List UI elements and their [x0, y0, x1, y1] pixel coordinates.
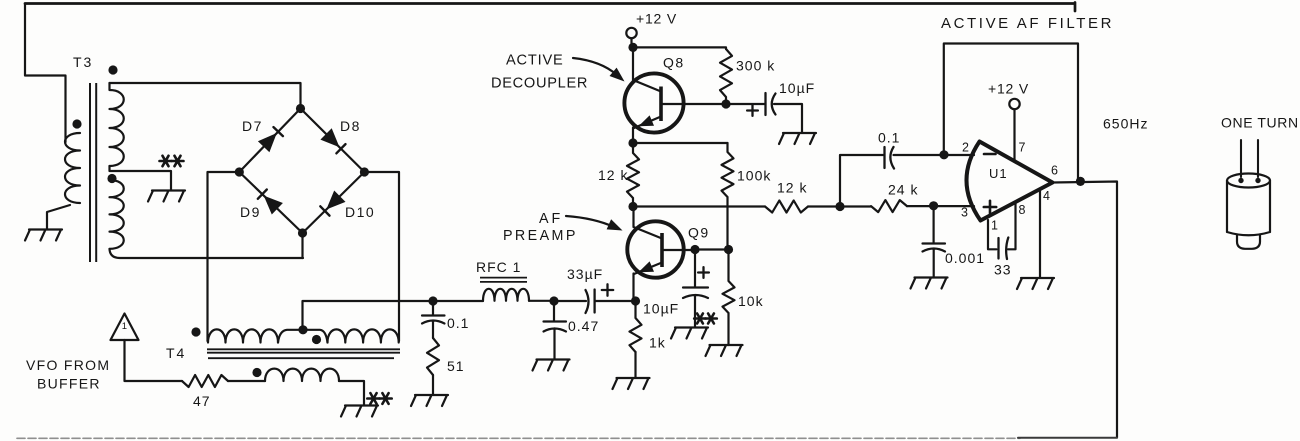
wire Q8 base to 10uF — [726, 103, 766, 105]
resistor 12k horizontal label — [777, 180, 807, 196]
capacitor 0.47 label — [568, 318, 599, 334]
650Hz label — [1103, 116, 1148, 132]
transformer T3 secondary lower half — [110, 180, 124, 249]
node bridge top — [296, 104, 305, 113]
svg-text:0.1: 0.1 — [878, 130, 900, 146]
wire bridge left node to T4 — [208, 172, 240, 341]
resistor 24k — [840, 200, 907, 212]
inductor RFC 1 label — [476, 259, 521, 275]
wire bottom return line — [17, 437, 1117, 440]
svg-text:3: 3 — [961, 206, 968, 220]
node T4 secondary left phase dot — [191, 327, 200, 336]
svg-text:D7: D7 — [242, 118, 263, 134]
inductor RFC 1 core — [480, 278, 527, 282]
svg-text:6: 6 — [1051, 164, 1058, 178]
node bridge right — [360, 167, 369, 176]
node Q8 emitter junction — [628, 138, 637, 147]
capacitor 33 label — [994, 262, 1012, 278]
svg-text:10µF: 10µF — [643, 301, 679, 317]
wire 0.1 to op-amp pin 2 — [894, 154, 975, 156]
ground T3 center tap — [148, 191, 185, 202]
ground T4 primary — [341, 406, 378, 417]
svg-text:T3: T3 — [73, 54, 93, 70]
ground 10uF Q8 — [779, 133, 816, 144]
op-amp pin 2 number — [962, 141, 969, 155]
transformer T3 label — [73, 54, 93, 70]
+12V label Q8 — [636, 11, 677, 27]
op-amp pin 1 number — [991, 219, 998, 233]
wire 51 to ground — [432, 375, 434, 395]
ACTIVE DECOUPLER pointer arrow — [573, 58, 625, 82]
capacitor 0.1 shunt — [422, 301, 445, 338]
wire RFC 1 to junction — [529, 300, 554, 302]
transformer T4 core — [207, 349, 400, 358]
svg-text:650Hz: 650Hz — [1103, 116, 1148, 132]
node Q9 base junction — [690, 245, 699, 254]
wire op-amp pin 8 — [1008, 203, 1016, 250]
svg-text:24 k: 24 k — [888, 182, 918, 198]
transistor Q8 — [624, 47, 726, 143]
svg-text:100k: 100k — [737, 168, 771, 184]
ground 0.001 — [911, 278, 948, 289]
capacitor 0.47 shunt — [544, 301, 567, 359]
svg-text:VFO FROM: VFO FROM — [26, 357, 110, 373]
svg-text:10µF: 10µF — [779, 80, 815, 96]
capacitor 10uF Q9 — [683, 250, 708, 328]
resistor 300k — [720, 49, 732, 104]
+12V terminal Q8 — [626, 28, 636, 48]
node output junction — [1076, 177, 1085, 186]
svg-text:PREAMP: PREAMP — [503, 228, 578, 244]
plus sign 10uF Q8 — [747, 105, 758, 116]
+12V terminal op-amp — [1009, 99, 1019, 160]
svg-text:7: 7 — [1019, 141, 1026, 155]
capacitor 0.001 label — [945, 250, 985, 266]
svg-text:U1: U1 — [989, 166, 1008, 181]
resistor 12k vertical label — [598, 167, 628, 183]
svg-text:BUFFER: BUFFER — [37, 376, 101, 392]
wire Q8 emitter node to 100k — [633, 142, 728, 144]
capacitor 33 op-amp — [999, 238, 1009, 260]
wire 24k to op-amp pin 3 — [907, 205, 974, 207]
wire T4 center tap riser left — [278, 330, 303, 343]
svg-text:ACTIVE AF FILTER: ACTIVE AF FILTER — [941, 15, 1114, 32]
wire junction up to 0.1 — [840, 155, 884, 207]
node Q9 collector junction — [628, 202, 637, 211]
inductor RFC 1 — [483, 289, 529, 301]
wire input to 47 resistor — [125, 340, 183, 381]
wire top supply rail — [25, 3, 1075, 12]
svg-text:47: 47 — [193, 393, 211, 409]
diode D9 — [258, 190, 283, 215]
wire 12k to junction — [808, 205, 840, 207]
node T3 primary phase dot — [72, 119, 81, 128]
wire T3 center tap — [110, 166, 172, 190]
svg-text:D8: D8 — [340, 118, 361, 134]
capacitor 33uF label — [567, 266, 603, 282]
svg-text:Q9: Q9 — [688, 225, 710, 241]
resistor 51 — [427, 338, 439, 375]
svg-text:1k: 1k — [649, 335, 666, 351]
plus sign 10uF Q9 — [698, 267, 709, 278]
diode D9 label — [240, 204, 261, 220]
wire bridge right node to T4 — [364, 172, 399, 341]
resistor 300k label — [736, 58, 775, 74]
transformer T3 secondary upper half — [110, 83, 124, 166]
op-amp pin 7 number — [1019, 141, 1026, 155]
transformer T4 primary winding — [265, 369, 339, 381]
wire bridge edge left-top — [239, 109, 300, 173]
op-amp plus input sign — [984, 201, 996, 213]
capacitor 10uF Q8 — [766, 93, 776, 115]
capacitor 0.1 series — [885, 147, 895, 169]
svg-text:T4: T4 — [166, 345, 186, 361]
node T4 primary phase dot — [252, 368, 261, 377]
svg-text:0.47: 0.47 — [568, 318, 599, 334]
input terminal triangle 1 — [111, 314, 139, 341]
wire bridge edge top-right — [301, 109, 365, 173]
node bridge bottom — [298, 228, 307, 237]
resistor 12k horizontal — [765, 201, 808, 213]
diode D7 label — [242, 118, 263, 134]
op-amp U1 body — [966, 142, 1052, 221]
transformer T4 secondary right half — [328, 329, 399, 342]
capacitor 0.1 series label — [878, 130, 900, 146]
diode D10 label — [345, 204, 375, 220]
asterisks T4 primary ground — [367, 393, 391, 404]
AF PREAMP pointer arrow — [566, 216, 623, 231]
wire op-amp output — [1053, 182, 1118, 438]
resistor 10k label — [738, 293, 764, 309]
svg-text:ACTIVE: ACTIVE — [506, 53, 564, 69]
resistor 12k vertical — [627, 143, 639, 207]
node T4 center tap — [298, 325, 307, 334]
wire bridge edge bottom-left — [239, 172, 302, 233]
op-amp pin 4 number — [1043, 189, 1050, 203]
resistor 1k — [630, 301, 642, 352]
wire op-amp pin 1 — [988, 220, 997, 249]
ground 10uF Q9 — [671, 328, 708, 339]
node +12V junction — [628, 43, 637, 52]
node T3 secondary lower phase dot — [107, 174, 116, 183]
svg-text:10k: 10k — [738, 293, 764, 309]
transformer T3 core — [90, 83, 96, 262]
svg-text:12 k: 12 k — [777, 180, 807, 196]
op-amp U1 label — [989, 166, 1008, 181]
resistor 51 label — [447, 358, 465, 374]
transistor Q9 — [627, 207, 695, 302]
diode D8 — [320, 128, 345, 153]
wire T3 secondary bottom to bridge bottom — [110, 249, 304, 258]
VFO FROM BUFFER label — [26, 357, 110, 392]
svg-text:DECOUPLER: DECOUPLER — [491, 76, 588, 92]
wire T4 center tap to audio line — [303, 301, 434, 330]
wire 1k to ground — [634, 352, 636, 378]
resistor 47 label — [193, 393, 211, 409]
asterisks T3 center tap — [160, 156, 184, 166]
capacitor 33uF — [586, 290, 595, 314]
resistor 100k label — [737, 168, 771, 184]
node Q8 base junction — [721, 99, 730, 108]
op-amp pin 3 number — [961, 206, 968, 220]
wire junction to RFC 1 — [433, 300, 483, 302]
node junction 0.1-51 — [428, 296, 437, 305]
svg-text:D10: D10 — [345, 204, 375, 220]
resistor 47 — [182, 375, 228, 387]
wire Q9 collector feedback line — [633, 205, 765, 207]
svg-text:AF: AF — [539, 211, 563, 227]
wire bridge edge right-bottom — [303, 172, 365, 233]
diode D7 — [258, 127, 283, 152]
wire op-amp pin 4 to ground — [1039, 190, 1041, 278]
plus sign 33uF — [602, 284, 613, 295]
svg-text:2: 2 — [962, 141, 969, 155]
wire T4 primary to ground — [339, 381, 364, 405]
node T3 secondary top phase dot — [108, 65, 117, 74]
capacitor 10uF Q9 label — [643, 301, 679, 317]
node junction 0.47 — [549, 296, 558, 305]
resistor 100k — [722, 143, 734, 250]
ground 1k — [613, 378, 650, 389]
ONE TURN label — [1221, 115, 1299, 131]
op-amp minus input sign — [984, 153, 996, 156]
wire feedback loop — [944, 44, 1078, 182]
ACTIVE AF FILTER title — [941, 15, 1114, 32]
op-amp pin 6 number — [1051, 164, 1058, 178]
node pin 3 junction — [929, 201, 938, 210]
resistor 24k label — [888, 182, 918, 198]
ground 51 — [411, 395, 448, 406]
wire 33uF to Q9 emitter node — [595, 300, 636, 302]
asterisks 10uF ground — [694, 314, 717, 324]
svg-text:+12 V: +12 V — [988, 81, 1029, 97]
wire T3 primary bottom lead — [47, 205, 70, 229]
transistor Q8 label — [663, 55, 685, 71]
ground 10k — [706, 345, 743, 356]
ground T3 primary — [25, 230, 62, 241]
svg-text:33µF: 33µF — [567, 266, 603, 282]
one-turn coil body — [1227, 174, 1270, 236]
svg-text:51: 51 — [447, 358, 465, 374]
wire bridge bottom node down — [301, 233, 303, 258]
svg-text:RFC 1: RFC 1 — [476, 259, 521, 275]
wire from top rail to T3 primary — [25, 4, 66, 143]
one-turn coil leads — [1241, 140, 1258, 177]
wire Q9 base to divider — [695, 248, 729, 250]
ground 0.47 — [533, 360, 570, 371]
svg-text:12 k: 12 k — [598, 167, 628, 183]
svg-text:D9: D9 — [240, 204, 261, 220]
resistor 1k label — [649, 335, 666, 351]
capacitor 0.1 shunt label — [447, 315, 469, 331]
op-amp pin 8 number — [1019, 203, 1026, 217]
node pin 2 junction — [939, 150, 948, 159]
ACTIVE DECOUPLER label — [491, 53, 588, 92]
transistor Q9 label — [688, 225, 710, 241]
svg-text:1: 1 — [991, 219, 998, 233]
AF PREAMP label — [503, 211, 578, 244]
svg-text:8: 8 — [1019, 203, 1026, 217]
wire 10uF Q8 to ground — [774, 104, 802, 133]
svg-text:0.1: 0.1 — [447, 315, 469, 331]
capacitor 0.001 shunt — [923, 206, 946, 277]
svg-text:ONE TURN: ONE TURN — [1221, 115, 1299, 131]
diode D10 — [320, 191, 345, 216]
one-turn coil base — [1237, 235, 1260, 249]
svg-text:+12 V: +12 V — [636, 11, 677, 27]
svg-text:300 k: 300 k — [736, 58, 775, 74]
node divider junction — [724, 245, 733, 254]
wire T4 center tap riser right — [303, 330, 328, 343]
wire 47 to T4 primary — [228, 380, 265, 382]
svg-text:1: 1 — [122, 321, 127, 332]
resistor 10k — [723, 250, 735, 346]
node T4 secondary right phase dot — [312, 335, 321, 344]
+12V label op-amp — [988, 81, 1029, 97]
node bridge left — [235, 167, 244, 176]
capacitor 10uF Q8 label — [779, 80, 815, 96]
svg-text:33: 33 — [994, 262, 1012, 278]
node filter input junction — [835, 202, 844, 211]
diode D8 label — [340, 118, 361, 134]
transformer T4 secondary left half — [208, 329, 278, 342]
one-turn coil lead dots — [1238, 178, 1260, 183]
wire T3 secondary top to bridge — [110, 83, 301, 109]
transformer T4 label — [166, 345, 186, 361]
transformer T3 primary winding — [65, 133, 80, 203]
svg-text:Q8: Q8 — [663, 55, 685, 71]
svg-text:4: 4 — [1043, 189, 1050, 203]
svg-text:0.001: 0.001 — [945, 250, 985, 266]
wire +12V rail to 300k — [633, 47, 726, 49]
node Q9 emitter junction — [631, 296, 640, 305]
ground op-amp pin 4 — [1017, 278, 1054, 289]
wire junction to 33uF — [554, 300, 586, 302]
